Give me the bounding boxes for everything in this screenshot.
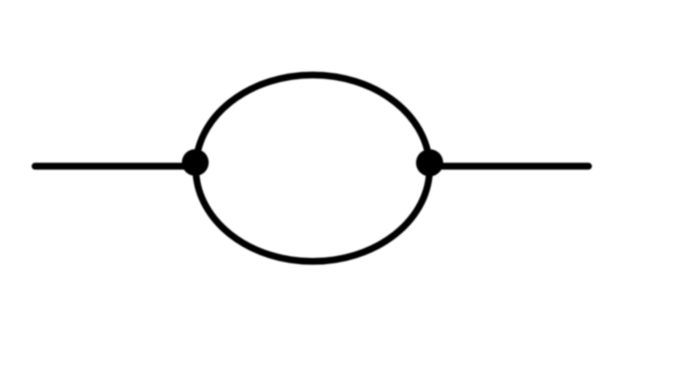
node: right vertex dot [416,149,443,176]
loop: internal propagator loop (ellipse) [196,75,430,261]
wire: left external propagator line [35,163,196,170]
node: left vertex dot [182,149,209,176]
wire: right external propagator line [429,163,589,170]
